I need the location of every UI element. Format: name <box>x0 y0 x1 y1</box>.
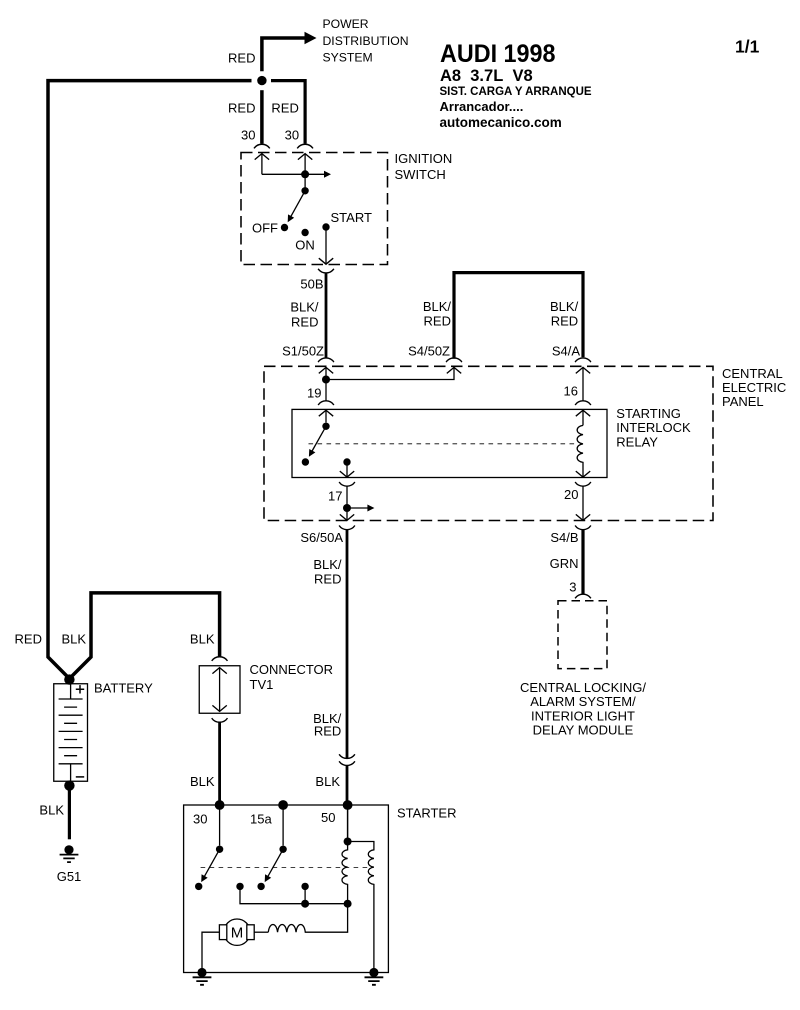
svg-text:S4/50Z: S4/50Z <box>408 343 450 358</box>
wire: stub to power distribution system with arrowhead <box>262 32 317 71</box>
connector 20 <box>575 482 591 486</box>
svg-text:RED: RED <box>271 100 298 115</box>
svg-text:50B: 50B <box>300 277 323 292</box>
svg-text:DISTRIBUTION: DISTRIBUTION <box>323 34 409 48</box>
svg-text:Arrancador....: Arrancador.... <box>440 99 524 114</box>
wire: 20 to panel exit <box>582 486 584 520</box>
connector TV1 top <box>212 657 228 661</box>
svg-text:3: 3 <box>569 580 576 595</box>
wire: battery negative BLK to ground <box>68 786 71 840</box>
wire: junction to relay pin 19 <box>325 380 327 401</box>
svg-text:G51: G51 <box>57 869 82 884</box>
starter switch 30 <box>195 805 223 890</box>
wire: motor left brush to ground <box>202 932 219 972</box>
node 17 junction <box>343 504 351 512</box>
node 19 junction <box>322 376 330 384</box>
connector 50B <box>318 269 334 273</box>
battery minus sign <box>76 776 84 778</box>
starter contact bus <box>236 883 347 904</box>
svg-text:IGNITION: IGNITION <box>395 151 453 166</box>
node: ignition internal junction <box>301 170 309 178</box>
wire: START contact to pin 50B <box>319 227 333 264</box>
svg-text:1/1: 1/1 <box>735 37 760 57</box>
svg-text:19: 19 <box>307 385 321 400</box>
connector relay pin 16 <box>575 401 591 405</box>
svg-text:STARTING: STARTING <box>616 406 681 421</box>
title block <box>440 40 592 130</box>
pin S4/A <box>576 367 590 400</box>
svg-text:PANEL: PANEL <box>722 394 764 409</box>
svg-text:BLK: BLK <box>39 803 64 818</box>
svg-text:A8 3.7L V8: A8 3.7L V8 <box>440 67 533 85</box>
wire: S4/50Z to S4/A bridge BLK/RED <box>454 273 583 359</box>
label CENTRAL ELECTRIC PANEL <box>722 366 786 409</box>
svg-text:17: 17 <box>328 489 342 504</box>
svg-text:RED: RED <box>551 313 578 328</box>
contact ON <box>301 229 308 236</box>
svg-text:20: 20 <box>564 487 578 502</box>
connector S1/50Z <box>318 358 334 362</box>
svg-text:BLK: BLK <box>315 774 340 789</box>
ignition pin 30 left <box>255 154 269 175</box>
svg-text:CENTRAL: CENTRAL <box>722 366 783 381</box>
svg-text:15a: 15a <box>250 812 272 827</box>
ignition switch box <box>241 153 388 265</box>
svg-text:ELECTRIC: ELECTRIC <box>722 380 786 395</box>
pin S4/50Z <box>447 367 461 373</box>
node: solenoid junction <box>344 838 352 846</box>
label BLK/RED (bridge left) <box>423 299 452 328</box>
relay pin 16 entry <box>576 410 590 425</box>
wire: 50B BLK/RED to S1/50Z <box>325 273 328 359</box>
connector S6/50A <box>339 526 355 530</box>
svg-text:CENTRAL LOCKING/: CENTRAL LOCKING/ <box>520 680 646 695</box>
svg-text:30: 30 <box>285 128 299 143</box>
svg-text:SWITCH: SWITCH <box>395 167 446 182</box>
svg-text:automecanico.com: automecanico.com <box>440 115 562 130</box>
node starter terminal 15a <box>278 800 288 810</box>
starter motor M <box>219 919 254 945</box>
svg-text:SYSTEM: SYSTEM <box>323 51 373 65</box>
relay contact to 17 <box>340 458 354 477</box>
label BLK/RED (lower) <box>313 711 342 739</box>
svg-text:BATTERY: BATTERY <box>94 681 153 696</box>
svg-text:INTERIOR LIGHT: INTERIOR LIGHT <box>531 708 635 723</box>
pin S6/50A exit <box>340 514 354 520</box>
label BLK/RED (50B wire) <box>290 300 319 330</box>
contact START <box>322 223 329 230</box>
svg-text:OFF: OFF <box>252 221 278 236</box>
connector TV1 bottom <box>212 718 228 722</box>
connector TV1 box with pin arrows <box>199 666 240 714</box>
svg-text:BLK/: BLK/ <box>313 557 342 572</box>
svg-text:BLK/: BLK/ <box>550 299 579 314</box>
wire: main RED feed (junction to battery positive) <box>48 81 252 679</box>
connector S4/50Z <box>446 358 462 362</box>
starter switch 15a <box>257 805 286 890</box>
pin S1/50Z <box>319 367 333 379</box>
svg-text:STARTER: STARTER <box>397 806 456 821</box>
svg-text:DELAY MODULE: DELAY MODULE <box>533 723 634 738</box>
label CONNECTOR TV1 <box>250 662 334 692</box>
connector: terminal 30 left <box>254 144 270 148</box>
svg-text:RED: RED <box>291 315 318 330</box>
connector: terminal 30 right <box>297 144 313 148</box>
wire: motor right brush to field winding <box>254 931 268 933</box>
svg-text:GRN: GRN <box>550 556 579 571</box>
node: power feed junction <box>257 76 266 85</box>
wire: S4/B GRN to module <box>581 529 584 594</box>
wire: 17 to panel exit with branch arrow <box>347 486 374 520</box>
central electric panel box <box>264 366 713 520</box>
svg-text:TV1: TV1 <box>250 677 274 692</box>
svg-text:BLK: BLK <box>190 632 215 647</box>
ignition pin 30 right <box>298 154 312 191</box>
svg-text:CONNECTOR: CONNECTOR <box>250 662 334 677</box>
svg-text:RED: RED <box>15 632 42 647</box>
solenoid pull-in winding <box>342 842 348 904</box>
svg-text:BLK/: BLK/ <box>290 300 319 315</box>
ground left (starter) <box>193 968 212 985</box>
connector relay pin 19 <box>318 401 334 405</box>
starter field winding <box>268 904 347 933</box>
svg-text:30: 30 <box>193 812 207 827</box>
wire: BLK to starter terminal 50 <box>346 765 349 805</box>
connector 17 <box>339 482 355 486</box>
node: battery negative junction <box>64 780 74 790</box>
wire: left ignition feed 30 <box>260 90 264 143</box>
label BLK/RED (upper) <box>313 557 342 587</box>
connector S4/A <box>575 358 591 362</box>
wire: S6/50A BLK/RED down to inline connector <box>346 529 349 758</box>
contact OFF <box>281 224 288 231</box>
battery plates <box>59 684 83 782</box>
wire: right ignition feed 30 <box>271 81 305 144</box>
svg-text:S4/A: S4/A <box>552 343 581 358</box>
connector module pin 3 <box>575 594 591 598</box>
relay switch pivot <box>322 423 329 430</box>
svg-text:16: 16 <box>564 383 578 398</box>
svg-text:ALARM SYSTEM/: ALARM SYSTEM/ <box>530 694 636 709</box>
starter box <box>184 805 389 973</box>
svg-text:RED: RED <box>314 572 341 587</box>
label POWER DISTRIBUTION SYSTEM <box>323 17 409 65</box>
svg-text:30: 30 <box>241 128 255 143</box>
svg-text:POWER: POWER <box>323 17 369 31</box>
svg-text:50: 50 <box>321 810 335 825</box>
svg-text:M: M <box>231 925 244 942</box>
connector S4/B <box>575 526 591 530</box>
relay contact rest <box>302 458 309 465</box>
svg-text:S4/B: S4/B <box>550 530 578 545</box>
pin S4/B exit <box>576 514 590 520</box>
wire: terminal 50 to solenoid <box>347 805 349 842</box>
ignition switch lever <box>285 191 305 224</box>
node: bus junction right <box>344 900 352 908</box>
svg-text:RED: RED <box>228 100 255 115</box>
relay mechanical link <box>309 443 577 445</box>
node: battery positive junction <box>64 674 74 684</box>
wire: node 19 to S4/50Z pin <box>326 367 454 379</box>
svg-text:SIST. CARGA Y ARRANQUE: SIST. CARGA Y ARRANQUE <box>440 86 592 98</box>
battery plus sign <box>76 685 84 693</box>
relay pin 19 entry <box>319 410 333 422</box>
node starter terminal 50 <box>343 800 353 810</box>
label STARTING INTERLOCK RELAY <box>616 406 691 449</box>
wire: ignition internal feed with arrow <box>262 171 331 178</box>
node starter terminal 30 <box>215 800 225 810</box>
svg-text:RED: RED <box>314 724 341 739</box>
inline connector (lower half) <box>339 761 355 765</box>
svg-text:BLK: BLK <box>190 774 215 789</box>
svg-text:START: START <box>331 210 372 225</box>
starting interlock relay box <box>292 409 607 477</box>
node: bus junction left <box>301 900 309 908</box>
battery box <box>54 684 88 782</box>
inline connector (upper half) <box>339 754 355 758</box>
svg-text:BLK/: BLK/ <box>423 299 452 314</box>
svg-text:BLK: BLK <box>62 632 87 647</box>
wire: TV1 BLK to starter terminal 30 <box>218 722 221 805</box>
label IGNITION SWITCH <box>395 151 453 182</box>
ground right (starter) <box>365 968 384 985</box>
solenoid hold-in winding <box>348 842 374 973</box>
wire: battery BLK to connector TV1 <box>69 593 219 679</box>
svg-text:INTERLOCK: INTERLOCK <box>616 420 691 435</box>
svg-text:S1/50Z: S1/50Z <box>282 343 324 358</box>
relay coil <box>576 425 590 477</box>
svg-text:S6/50A: S6/50A <box>300 530 343 545</box>
svg-text:RELAY: RELAY <box>616 434 658 449</box>
svg-text:ON: ON <box>295 237 315 252</box>
svg-text:RED: RED <box>228 51 255 66</box>
label CENTRAL LOCKING/ALARM SYSTEM/INTERIOR LIGHT DELAY MODULE <box>520 680 646 738</box>
svg-text:RED: RED <box>424 313 451 328</box>
ground G51 <box>60 845 79 862</box>
ignition switch pivot <box>301 187 308 194</box>
svg-text:AUDI 1998: AUDI 1998 <box>440 40 556 68</box>
starter mechanical link <box>201 867 368 869</box>
relay switch lever <box>306 426 326 458</box>
label BLK/RED (bridge right) <box>550 299 579 328</box>
central locking module box <box>558 601 607 669</box>
